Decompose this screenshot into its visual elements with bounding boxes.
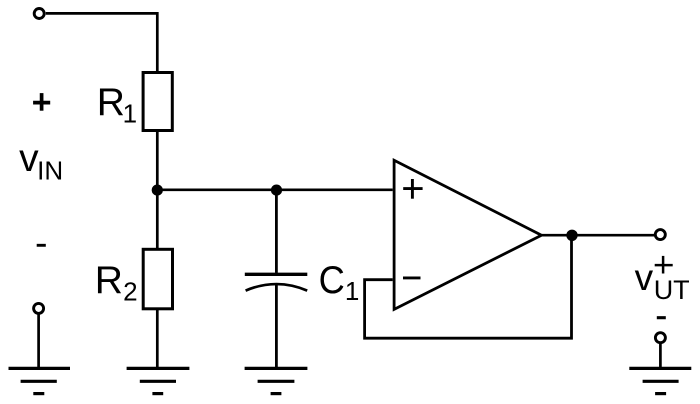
node C junction dot (output) <box>566 230 577 241</box>
terminal output ground <box>655 333 665 343</box>
wire node B to C1 <box>275 190 278 273</box>
svg-text:UT: UT <box>654 275 690 305</box>
terminal input top <box>34 9 44 19</box>
label - (output polarity) <box>657 316 666 319</box>
wire feedback loop <box>365 235 572 338</box>
svg-text:R: R <box>97 81 125 124</box>
ground (below R2) <box>127 368 190 393</box>
wire output terminal to ground <box>659 343 662 368</box>
svg-text:v: v <box>19 137 39 180</box>
wire op-amp output <box>542 234 655 237</box>
op-amp U1 <box>394 160 541 309</box>
wire input top to R1 <box>46 13 158 73</box>
node B junction dot <box>271 185 282 196</box>
label C1 <box>319 259 360 306</box>
ground (below C1) <box>245 368 308 393</box>
svg-text:R: R <box>95 259 123 302</box>
svg-text:1: 1 <box>345 276 359 306</box>
wire node A to op-amp <box>157 188 392 191</box>
op-amp + input marker <box>403 179 422 199</box>
node A junction dot <box>152 185 163 196</box>
svg-text:v: v <box>635 257 654 298</box>
capacitor C1 <box>245 274 307 290</box>
svg-text:2: 2 <box>123 277 137 307</box>
wire R2 to ground <box>156 309 159 368</box>
terminal input bottom <box>34 303 44 313</box>
wire input bottom to ground <box>37 314 40 369</box>
label + (input polarity) <box>33 93 50 111</box>
wire C1 to ground <box>275 284 278 368</box>
wire node A to R2 <box>156 190 159 250</box>
label vIN <box>19 137 63 186</box>
op-amp - input marker <box>403 276 421 279</box>
label + (output polarity superscript) <box>655 256 673 274</box>
svg-text:C: C <box>319 259 345 302</box>
label vUT <box>635 257 690 305</box>
resistor R1 <box>143 73 172 131</box>
wire R1 to node A <box>156 131 159 190</box>
svg-text:1: 1 <box>123 98 137 128</box>
resistor R2 <box>143 249 172 308</box>
svg-text:IN: IN <box>37 156 63 186</box>
ground (output) <box>629 368 691 393</box>
label R2 <box>95 259 138 307</box>
terminal output <box>655 230 665 240</box>
ground (input bottom) <box>9 368 71 393</box>
label - (input polarity) <box>37 244 46 247</box>
label R1 <box>97 81 137 128</box>
